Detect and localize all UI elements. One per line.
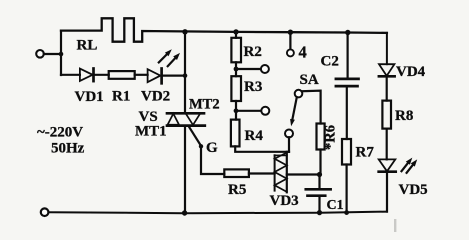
switch SA moving contact bbox=[285, 130, 293, 138]
wire R7 to bottom rail bbox=[346, 165, 348, 213]
LED VD5 arrow 1 bbox=[402, 163, 409, 171]
node VD2-main bbox=[183, 73, 188, 78]
wire VD3 to C1 junction bbox=[287, 173, 320, 175]
bottom rail bbox=[49, 212, 387, 214]
node tap1 bbox=[234, 67, 239, 72]
wire VD5 to bottom rail bbox=[386, 172, 388, 212]
switch SA blade bbox=[293, 97, 297, 119]
svg-text:R8: R8 bbox=[395, 108, 413, 124]
svg-text:R5: R5 bbox=[228, 182, 246, 198]
svg-text:*R6: *R6 bbox=[323, 125, 339, 150]
svg-text:R3: R3 bbox=[244, 79, 262, 95]
svg-text:50Hz: 50Hz bbox=[51, 141, 85, 157]
diac VD3 bbox=[274, 155, 276, 190]
triac VS bbox=[167, 112, 204, 115]
svg-text:C1: C1 bbox=[327, 198, 344, 213]
switch SA fixed contact bbox=[295, 90, 303, 98]
terminal 4 bbox=[287, 49, 294, 56]
node G bbox=[199, 144, 203, 148]
wire junction to C1 bbox=[318, 175, 320, 190]
node rail terminal4 bbox=[288, 30, 293, 35]
wire tap1 bbox=[238, 68, 261, 70]
svg-text:VD2: VD2 bbox=[141, 89, 170, 105]
LED VD2 arrow 2 bbox=[168, 58, 176, 66]
wire C1 to bottom rail bbox=[318, 196, 320, 213]
capacitor C2 bbox=[336, 78, 359, 81]
wire rail to C2 bbox=[347, 33, 349, 78]
svg-text:VD4: VD4 bbox=[396, 64, 426, 80]
resistor R2 bbox=[231, 38, 241, 63]
svg-text:MT1: MT1 bbox=[135, 124, 167, 140]
wire bbox=[94, 74, 109, 76]
svg-text:SA: SA bbox=[300, 72, 319, 88]
node rail R2 bbox=[233, 29, 238, 34]
heater RL meander and top rail bbox=[61, 18, 387, 41]
wire SA contact down bbox=[288, 137, 290, 152]
capacitor C1 bbox=[306, 188, 331, 191]
node top rail main bbox=[182, 29, 187, 34]
svg-text:4: 4 bbox=[299, 43, 307, 62]
resistor R7 bbox=[342, 139, 351, 165]
svg-text:R1: R1 bbox=[112, 89, 130, 105]
resistor R1 bbox=[109, 71, 135, 79]
wire C2 to R7 bbox=[346, 86, 348, 139]
wire rail to terminal 4 bbox=[289, 32, 291, 49]
resistor R8 bbox=[382, 101, 391, 129]
terminal bottom-left bbox=[41, 208, 49, 216]
resistor R3 bbox=[231, 76, 241, 101]
LED VD5 arrow 2 bbox=[407, 165, 413, 173]
svg-text:C2: C2 bbox=[321, 54, 339, 70]
wire rail to R2 bbox=[235, 32, 237, 38]
resistor R5 bbox=[224, 169, 249, 177]
wire bbox=[135, 74, 148, 76]
wire main vertical upper bbox=[184, 32, 186, 113]
wire tap2 bbox=[238, 110, 261, 112]
LED VD5 bbox=[379, 159, 396, 171]
node C1 rail bbox=[317, 210, 322, 215]
node bottom rail main bbox=[182, 210, 187, 215]
wire R2 to R3 bbox=[235, 62, 237, 76]
scan artifact bbox=[394, 219, 396, 232]
svg-text:VD3: VD3 bbox=[270, 193, 299, 209]
wire main vertical lower bbox=[184, 126, 186, 214]
svg-text:G: G bbox=[206, 140, 218, 156]
svg-text:R4: R4 bbox=[245, 128, 264, 144]
wire R8 to VD5 bbox=[386, 129, 388, 160]
node tap2 bbox=[234, 108, 239, 113]
node junction C1 bbox=[317, 172, 322, 177]
wire R3 to R4 bbox=[235, 101, 237, 120]
diode VD1 bbox=[80, 69, 93, 81]
wire SA fixed to R6 bbox=[302, 91, 321, 124]
terminal top-left bbox=[36, 50, 44, 58]
wire terminal to node bbox=[44, 53, 59, 55]
svg-text:R7: R7 bbox=[356, 145, 375, 161]
LED VD2 arrow 1 bbox=[159, 54, 167, 62]
resistor R6 bbox=[317, 124, 325, 150]
wire gate to R5 bbox=[201, 148, 224, 174]
svg-text:VD1: VD1 bbox=[75, 89, 104, 105]
terminal tap2 bbox=[261, 107, 269, 115]
gate lead bbox=[189, 126, 201, 145]
terminal tap1 bbox=[261, 65, 269, 73]
diode VD4 bbox=[379, 64, 394, 76]
wire left column bbox=[60, 31, 62, 75]
svg-text:R2: R2 bbox=[244, 44, 262, 60]
wire branch left bbox=[61, 74, 80, 76]
LED VD2 bbox=[148, 69, 161, 82]
svg-text:VD5: VD5 bbox=[399, 182, 428, 198]
wire R6 down bbox=[319, 150, 321, 175]
wire R5 to VD3 bbox=[249, 172, 275, 174]
svg-text:MT2: MT2 bbox=[189, 97, 220, 113]
wire VD4 to R8 bbox=[386, 76, 388, 100]
svg-text:RL: RL bbox=[77, 38, 98, 54]
wire VD2 to main vertical bbox=[162, 74, 185, 76]
wire right branch top bbox=[386, 33, 388, 64]
node A (left junction) bbox=[59, 52, 64, 57]
node R7 rail bbox=[344, 210, 349, 215]
resistor R4 bbox=[231, 120, 240, 147]
wire R4 to VD3 top bbox=[235, 146, 289, 151]
svg-text:~-220V: ~-220V bbox=[37, 125, 83, 141]
node rail C2 bbox=[345, 30, 350, 35]
